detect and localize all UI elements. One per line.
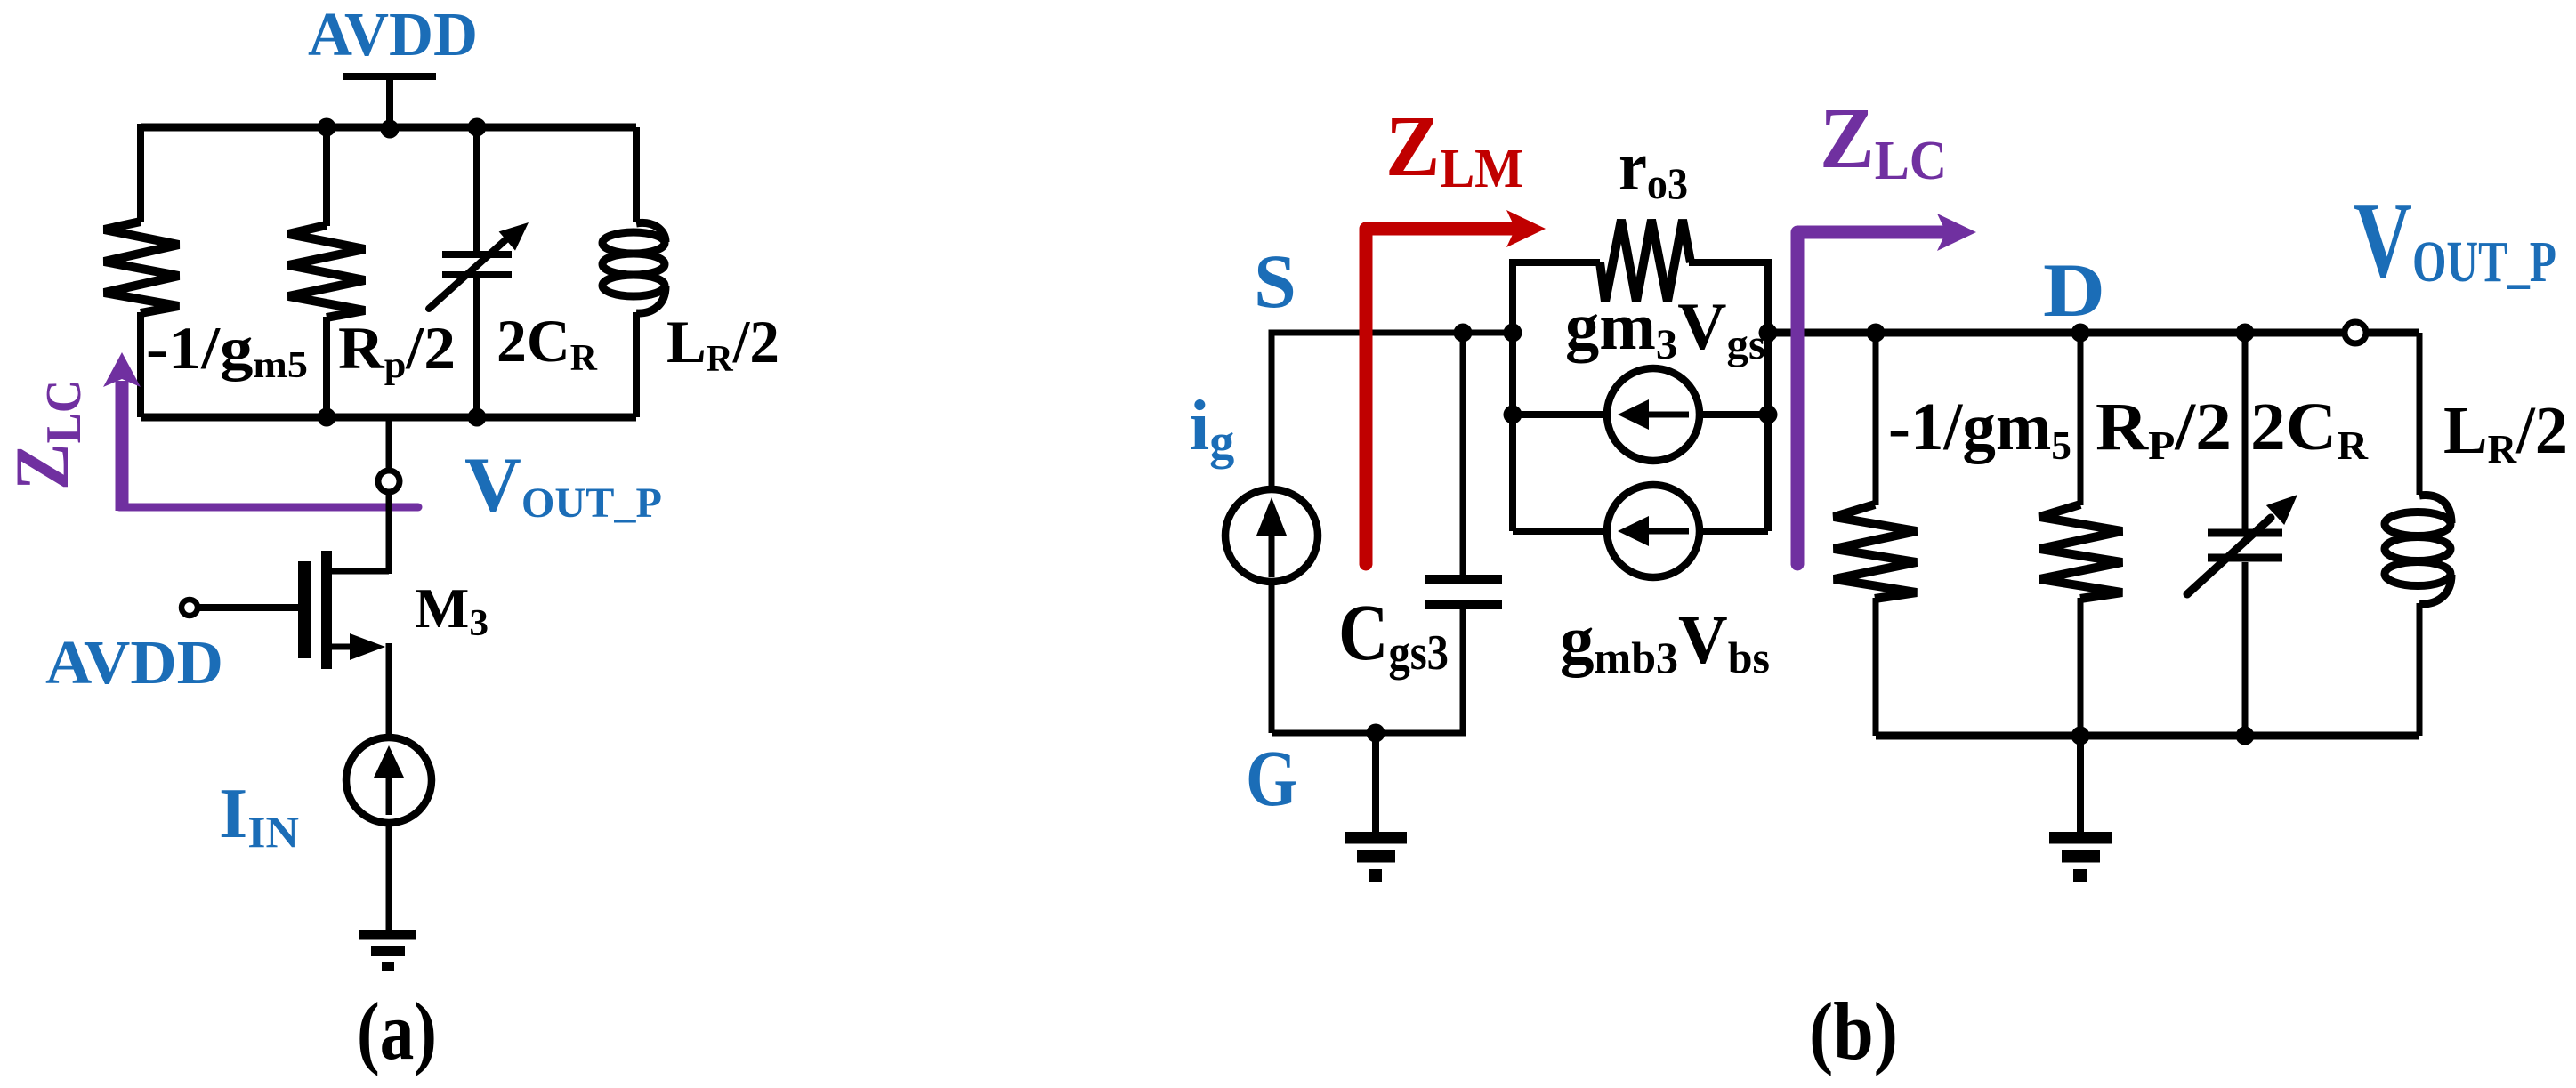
inductor LR/2 (a): [602, 222, 666, 313]
current source ig (b): [1225, 489, 1318, 582]
wire left branch lower (a): [137, 312, 144, 417]
impedance probe arrow ZLC (b): [1797, 214, 1976, 564]
svg-text:AVDD: AVDD: [45, 629, 223, 697]
junction node dot ground stem (b): [1367, 724, 1385, 743]
power symbol AVDD (a): [343, 77, 436, 127]
wire drain stem (a): [386, 493, 392, 574]
current source gm3Vgs (b): [1607, 368, 1700, 461]
wire -1/gm5 branch lower (b): [1873, 598, 1879, 736]
wire S rail and left edge (b): [1272, 333, 1513, 490]
varactor arrow head 2CR (b): [2266, 495, 2297, 525]
junction node dots top rail (a): [318, 118, 487, 139]
wire LR/2 branch lower (b): [2417, 603, 2423, 736]
junction node dots box (b): [1504, 324, 1778, 424]
current source IIN (a): [346, 737, 432, 823]
junction node dots bottom rail (b): [2071, 727, 2255, 745]
ground (b right): [2049, 832, 2112, 882]
wire RP/2 branch lower (b): [2078, 598, 2084, 736]
wire bottom rail (b): [1876, 732, 2419, 740]
wire box left edge (b): [1509, 259, 1516, 531]
capacitor Cgs3 (b): [1425, 579, 1502, 605]
wire box top edge left (b): [1513, 259, 1600, 266]
wire 2CR branch upper (b): [2242, 333, 2249, 529]
wire output stem (a): [386, 417, 392, 469]
svg-text:(b): (b): [1809, 986, 1898, 1076]
svg-text:AVDD: AVDD: [308, 1, 478, 69]
wire box mid rail (b): [1513, 411, 1768, 418]
junction node dots S rail (b): [1454, 324, 1522, 343]
terminal VOUT_P open circle (b): [2345, 322, 2366, 343]
wire top rail (a): [141, 124, 636, 132]
wire Cgs3 branch lower (b): [1460, 608, 1466, 733]
wire ground stem (b right): [2077, 736, 2084, 833]
svg-text:-1/gm5: -1/gm5: [1888, 390, 2071, 468]
varactor capacitor 2CR (a): [429, 238, 512, 309]
svg-text:G: G: [1246, 735, 1297, 823]
resistor -1/gm5 (a): [104, 222, 179, 313]
resistor RP/2 (b): [2039, 504, 2122, 599]
wire Cgs3 branch upper (b): [1460, 333, 1466, 576]
wire left branch upper (a): [137, 124, 144, 222]
resistor -1/gm5 (b): [1834, 504, 1917, 599]
impedance probe arrow ZLC (a): [103, 352, 418, 511]
resistor Rp/2 (a): [288, 225, 365, 318]
wire right branch upper (a): [633, 127, 640, 222]
wire box top edge right (b): [1689, 259, 1768, 266]
svg-text:(a): (a): [357, 986, 437, 1076]
resistor ro3 (b): [1600, 220, 1691, 302]
transistor M3 (a): [182, 551, 389, 669]
wire branch2 lower (a): [323, 317, 330, 417]
current source gmb3Vbs (b): [1607, 485, 1700, 577]
wire -1/gm5 branch upper (b): [1873, 333, 1879, 505]
wire branch3 upper (a): [473, 127, 480, 251]
junction node dots bottom rail (a): [318, 408, 487, 427]
wire right branch lower (a): [633, 312, 640, 417]
terminal VOUT_P open circle (a): [378, 471, 400, 492]
wire D rail (b): [1768, 329, 2419, 337]
wire ig to bottom (b): [1269, 581, 1275, 733]
ground (a): [359, 930, 416, 971]
wire bottom rail left loop (b): [1272, 730, 1466, 737]
wire box right edge (b): [1764, 259, 1772, 531]
wire box bottom edge (b): [1513, 528, 1768, 535]
wire source to current source (a): [386, 643, 392, 737]
svg-text:D: D: [2043, 247, 2105, 333]
wire branch2 upper (a): [323, 127, 330, 226]
wire branch3 lower (a): [473, 278, 480, 417]
varactor capacitor 2CR (b): [2187, 518, 2282, 594]
varactor arrow head 2CR (a): [499, 222, 529, 251]
wire bottom rail (a): [141, 414, 636, 422]
wire ground stem (b left): [1372, 733, 1379, 833]
ground (b left): [1345, 832, 1407, 882]
wire current source to ground (a): [386, 823, 392, 931]
impedance probe arrow ZLM (b): [1366, 210, 1546, 564]
wire RP/2 branch upper (b): [2078, 333, 2084, 505]
svg-text:S: S: [1254, 238, 1296, 324]
wire LR/2 branch upper (b): [2417, 333, 2423, 495]
inductor LR/2 (b): [2385, 496, 2451, 605]
wire 2CR branch lower (b): [2242, 562, 2249, 736]
junction node dots D rail (b): [1867, 324, 2255, 343]
